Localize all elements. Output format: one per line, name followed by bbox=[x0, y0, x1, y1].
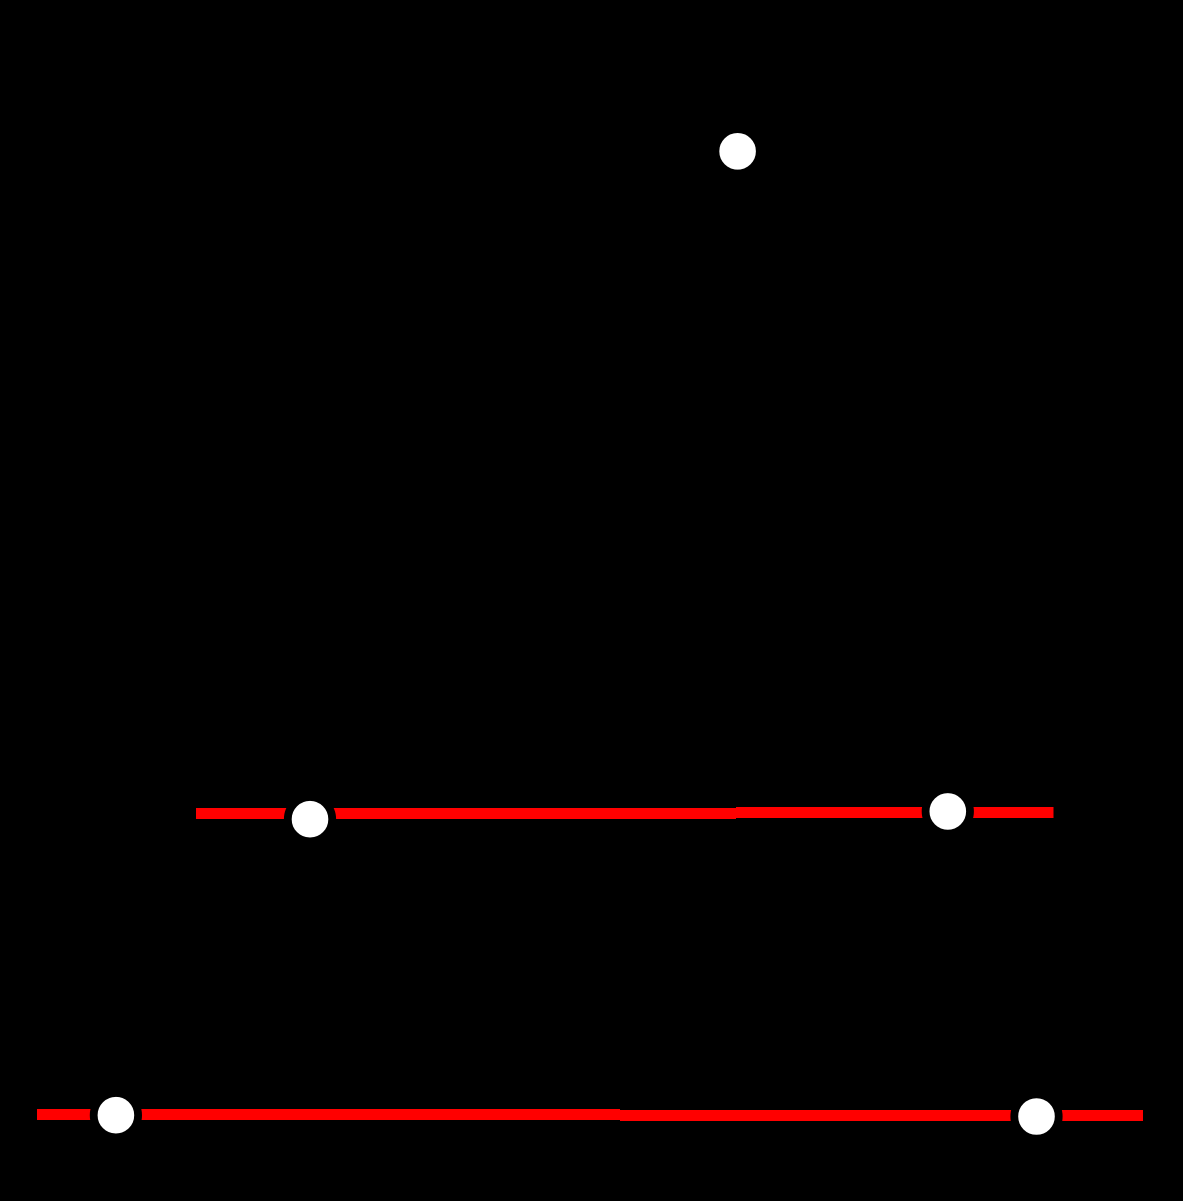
point B (on line f, left) bbox=[288, 797, 332, 841]
line f (upper red line) bbox=[196, 807, 1054, 819]
point A (apex) bbox=[715, 129, 759, 173]
point D (on line g, left) bbox=[94, 1093, 138, 1137]
point E (on line g, right) bbox=[1014, 1094, 1058, 1138]
point C (on line f, right) bbox=[926, 789, 970, 833]
line g (lower red line) bbox=[37, 1109, 1143, 1121]
